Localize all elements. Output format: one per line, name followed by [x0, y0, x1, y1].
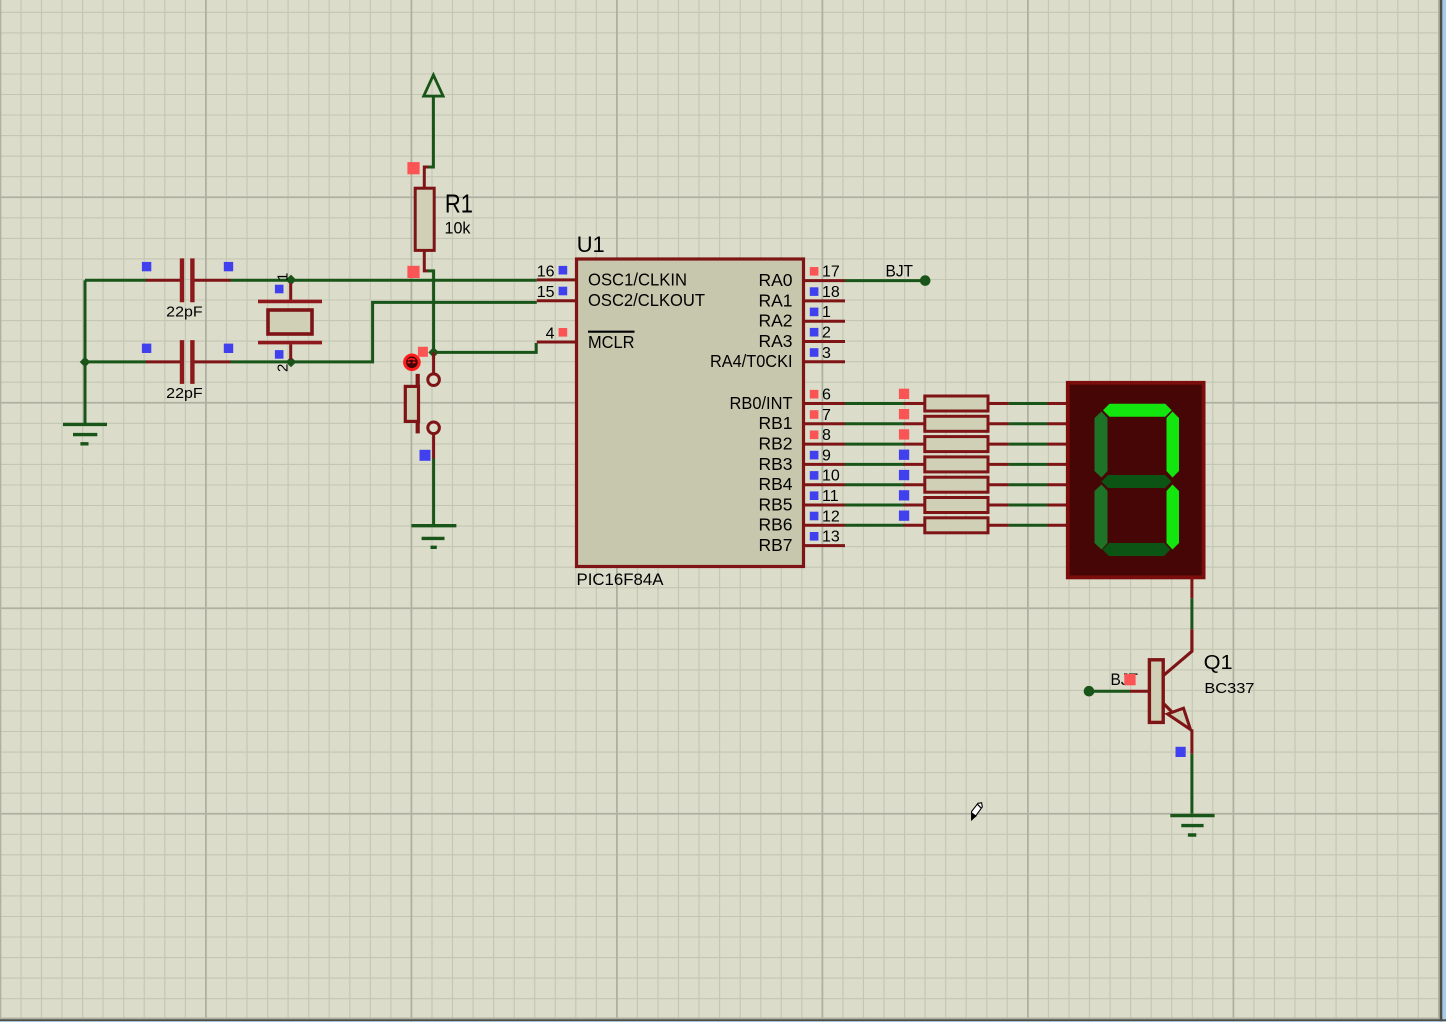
svg-text:16: 16 — [537, 263, 555, 280]
pin 10 (RB4) — [758, 468, 845, 494]
wire RA0 to BJT terminal — [845, 279, 921, 282]
wire RB6 to resistor — [845, 524, 925, 527]
wire resistor to display — [988, 463, 1068, 466]
svg-text:RA2: RA2 — [758, 311, 792, 331]
resistor R7 — [899, 490, 988, 512]
svg-text:RB3: RB3 — [758, 454, 792, 474]
marker square Q1 emitter — [1176, 747, 1186, 757]
wire button bottom lead — [432, 433, 435, 459]
capacitor C1 22pF — [166, 258, 203, 320]
svg-text:7: 7 — [822, 407, 831, 424]
svg-text:18: 18 — [822, 284, 840, 301]
svg-text:BJT: BJT — [886, 263, 914, 281]
wire RB4 to resistor — [845, 483, 925, 486]
marker squares R1 — [407, 162, 419, 278]
svg-text:6: 6 — [822, 387, 831, 404]
wire RB2 to resistor — [845, 443, 925, 446]
wire resistor to display — [988, 483, 1068, 486]
svg-text:MCLR: MCLR — [588, 332, 635, 352]
wire button top lead — [432, 352, 435, 374]
resistor R4 — [899, 429, 988, 451]
marker square button — [420, 450, 431, 461]
svg-text:22pF: 22pF — [166, 385, 203, 402]
svg-text:RB7: RB7 — [758, 535, 792, 555]
svg-text:2: 2 — [822, 325, 831, 342]
crystal X1 — [258, 283, 322, 360]
svg-text:RB6: RB6 — [758, 515, 792, 535]
pin number 1 (crystal) — [275, 273, 292, 281]
wire C1 left lead — [146, 279, 180, 282]
resistor R8 — [899, 511, 988, 533]
pin 17 (RA0) — [758, 264, 845, 290]
wire display cathode — [1190, 577, 1193, 598]
pin 13 (RB7) — [758, 529, 845, 555]
wire OSC2 net left — [85, 360, 147, 363]
resistor R2 — [899, 389, 988, 411]
svg-text:RB1: RB1 — [758, 413, 792, 433]
pin number 2 (crystal) — [275, 364, 292, 372]
wire GND vertical left — [84, 280, 87, 423]
node BJT (RA0) — [886, 263, 931, 286]
wire resistor to display — [988, 504, 1068, 507]
wire RB3 to resistor — [845, 463, 925, 466]
marker squares C2 — [142, 344, 233, 353]
7-segment display — [1068, 383, 1204, 578]
svg-text:1: 1 — [275, 273, 292, 281]
wire resistor to display — [988, 422, 1068, 425]
svg-text:Q1: Q1 — [1204, 652, 1233, 674]
svg-text:11: 11 — [822, 488, 839, 505]
wire resistor to display — [988, 443, 1068, 446]
wire C2 right lead — [195, 360, 232, 363]
pin 1 (RA2) — [758, 304, 845, 330]
marker square MCLR node — [418, 347, 428, 357]
ground symbol button — [411, 526, 456, 548]
wire Q1 emitter lead — [1190, 729, 1193, 754]
svg-text:12: 12 — [822, 508, 840, 525]
svg-text:RB0/INT: RB0/INT — [730, 393, 793, 413]
pin 9 (RB3) — [758, 447, 845, 473]
svg-text:R1: R1 — [445, 188, 473, 218]
wire R1 to MCLR node — [428, 271, 434, 353]
svg-text:OSC2/CLKOUT: OSC2/CLKOUT — [588, 290, 705, 310]
svg-text:8: 8 — [822, 427, 831, 444]
marker square BJT label — [1124, 674, 1135, 685]
pin 4 (MCLR) — [537, 325, 635, 352]
ground symbol Q1 — [1170, 816, 1214, 835]
wire RB1 to resistor — [845, 422, 925, 425]
svg-text:RA1: RA1 — [758, 290, 792, 310]
junction node XTAL pin1 — [286, 275, 297, 286]
svg-text:22pF: 22pF — [166, 303, 203, 320]
pin 11 (RB5) — [758, 488, 845, 514]
wire button to ground — [432, 459, 435, 525]
svg-text:13: 13 — [822, 529, 840, 546]
wire resistor to display — [988, 524, 1068, 527]
marker squares crystal — [275, 285, 284, 359]
wire MCLR node to pin 4 — [434, 343, 537, 352]
svg-text:U1: U1 — [577, 232, 605, 257]
svg-text:RA0: RA0 — [758, 270, 792, 290]
junction MCLR node — [428, 347, 439, 358]
pin 12 (RB6) — [758, 508, 845, 534]
svg-text:2: 2 — [275, 364, 292, 372]
wire OSC2 net to chip — [231, 302, 537, 362]
svg-text:1: 1 — [822, 304, 831, 321]
push button — [405, 374, 439, 434]
wire R1 top lead — [424, 167, 428, 190]
resistor R6 — [899, 470, 988, 492]
pin 8 (RB2) — [758, 427, 845, 453]
svg-text:9: 9 — [822, 447, 831, 464]
pin 15 (OSC2/CLKOUT) — [537, 284, 706, 310]
power symbol VCC — [424, 75, 443, 96]
resistor R3 — [899, 409, 988, 431]
svg-text:17: 17 — [822, 264, 840, 281]
wire base terminal to Q1 — [1093, 690, 1149, 693]
ground symbol left — [63, 424, 107, 443]
svg-text:10k: 10k — [445, 219, 471, 238]
pin 6 (RB0/INT) — [730, 387, 846, 413]
svg-text:RB2: RB2 — [758, 434, 792, 454]
wire emitter to ground — [1190, 754, 1193, 814]
svg-text:3: 3 — [822, 345, 831, 362]
svg-text:10: 10 — [822, 468, 840, 485]
wire OSC1 net left — [85, 279, 147, 282]
op-amp U1 PIC16F84A body — [577, 232, 804, 589]
marker squares C1 — [142, 262, 233, 271]
svg-text:RB5: RB5 — [758, 494, 792, 514]
pin 2 (RA3) — [758, 325, 845, 351]
pin 3 (RA4/T0CKI) — [710, 345, 845, 371]
svg-text:RA4/T0CKI: RA4/T0CKI — [710, 351, 793, 371]
svg-text:RB4: RB4 — [758, 474, 792, 494]
svg-text:BC337: BC337 — [1204, 680, 1254, 697]
resistor R5 — [899, 450, 988, 472]
pin 18 (RA1) — [758, 284, 845, 310]
junction node left — [80, 357, 91, 368]
svg-text:PIC16F84A: PIC16F84A — [577, 570, 665, 589]
wire resistor to display — [988, 402, 1068, 405]
wire OSC1 net to chip — [231, 279, 537, 282]
wire RB0 to resistor — [845, 402, 925, 405]
transistor Q1 BC337 — [1149, 629, 1254, 729]
pin 16 (OSC1/CLKIN) — [537, 263, 687, 289]
pencil cursor — [972, 803, 983, 820]
wire C2 left lead — [146, 360, 180, 363]
wire RB5 to resistor — [845, 504, 925, 507]
svg-text:4: 4 — [546, 325, 555, 342]
svg-text:15: 15 — [537, 284, 555, 301]
svg-text:RA3: RA3 — [758, 331, 792, 351]
capacitor C2 22pF — [166, 340, 203, 402]
wire VCC to R1 — [428, 96, 434, 167]
wire C1 right lead — [195, 279, 232, 282]
node BJT (base) — [1084, 671, 1138, 697]
wire display to Q1 — [1190, 598, 1193, 629]
pin 7 (RB1) — [758, 407, 845, 433]
marker red ring — [405, 355, 420, 370]
junction node XTAL pin2 — [286, 357, 297, 368]
wire R1 bottom lead — [424, 250, 428, 271]
resistor R1 — [415, 188, 473, 250]
svg-text:OSC1/CLKIN: OSC1/CLKIN — [588, 269, 687, 289]
